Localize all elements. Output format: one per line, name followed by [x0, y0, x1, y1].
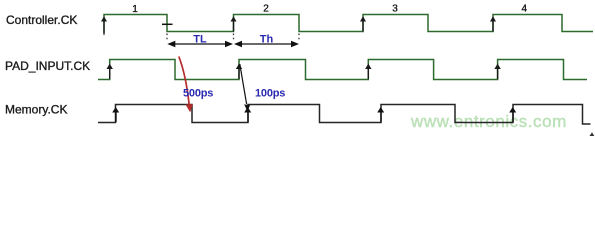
clock cycle number 2: [263, 4, 269, 15]
label 100ps: [255, 87, 285, 99]
edge marker arrow, Memory rising edge 3: [377, 107, 384, 122]
svg-text:Controller.CK: Controller.CK: [6, 13, 77, 27]
clock cycle number 1: [132, 4, 138, 15]
svg-text:4: 4: [522, 4, 528, 15]
dimension arrow TL (low time): [167, 41, 233, 47]
svg-text:500ps: 500ps: [183, 87, 213, 99]
label Controller.CK: [6, 13, 77, 27]
edge marker arrow, Memory rising edge 2: [244, 107, 251, 122]
svg-text:Memory.CK: Memory.CK: [5, 103, 67, 117]
edge marker arrow, PAD rising edge 1: [107, 64, 113, 79]
black delay arrow (100ps) from PAD rising edge 2 to Memory rising edge 2: [240, 64, 250, 111]
svg-text:Th: Th: [260, 33, 274, 45]
svg-text:100ps: 100ps: [255, 87, 285, 99]
label TL: [193, 33, 207, 45]
dotted extension below Controller rising edge 2: [233, 34, 235, 42]
svg-text:3: 3: [392, 4, 398, 15]
clock cycle number 3: [392, 4, 398, 15]
edge marker arrow, Memory rising edge 1: [112, 107, 119, 122]
edge marker arrow, PAD rising edge 4: [494, 64, 500, 79]
edge marker arrow, Controller rising edge 1: [101, 16, 107, 33]
label 500ps: [183, 87, 213, 99]
clock cycle number 4: [522, 4, 528, 15]
svg-text:PAD_INPUT.CK: PAD_INPUT.CK: [5, 59, 90, 73]
edge marker arrow, Controller rising edge 2: [231, 16, 237, 31]
dotted extension below Controller rising edge 1: [103, 34, 105, 37]
dotted extension below Controller falling edge 2: [298, 34, 300, 42]
waveform Controller.CK: [104, 15, 593, 35]
edge marker arrow, Controller rising edge 4: [490, 16, 496, 31]
label Th: [260, 33, 274, 45]
edge marker arrow, Memory rising edge 4: [509, 107, 516, 122]
partial edge arrow at right margin of Memory row: [590, 132, 595, 136]
tick mark on Controller falling edge 1: [162, 23, 173, 25]
svg-text:2: 2: [263, 4, 269, 15]
label Memory.CK: [5, 103, 67, 117]
edge marker arrow, Controller rising edge 3: [360, 16, 366, 31]
edge marker arrow, PAD rising edge 3: [365, 64, 371, 79]
waveform Memory.CK: [98, 105, 591, 125]
svg-text:www.entronics.com: www.entronics.com: [410, 112, 567, 131]
svg-text:1: 1: [132, 4, 138, 15]
watermark www.entronics.com: [410, 112, 567, 131]
edge marker arrow, PAD rising edge 2: [236, 64, 242, 79]
dimension arrow Th (high time): [234, 41, 299, 47]
dotted extension below Controller falling edge 1: [166, 34, 168, 42]
svg-text:TL: TL: [193, 33, 207, 45]
waveform PAD_INPUT.CK: [98, 60, 587, 80]
red delay arrow (500ps) from PAD falling edge to Memory edge: [179, 57, 193, 113]
label PAD_INPUT.CK: [5, 59, 90, 73]
